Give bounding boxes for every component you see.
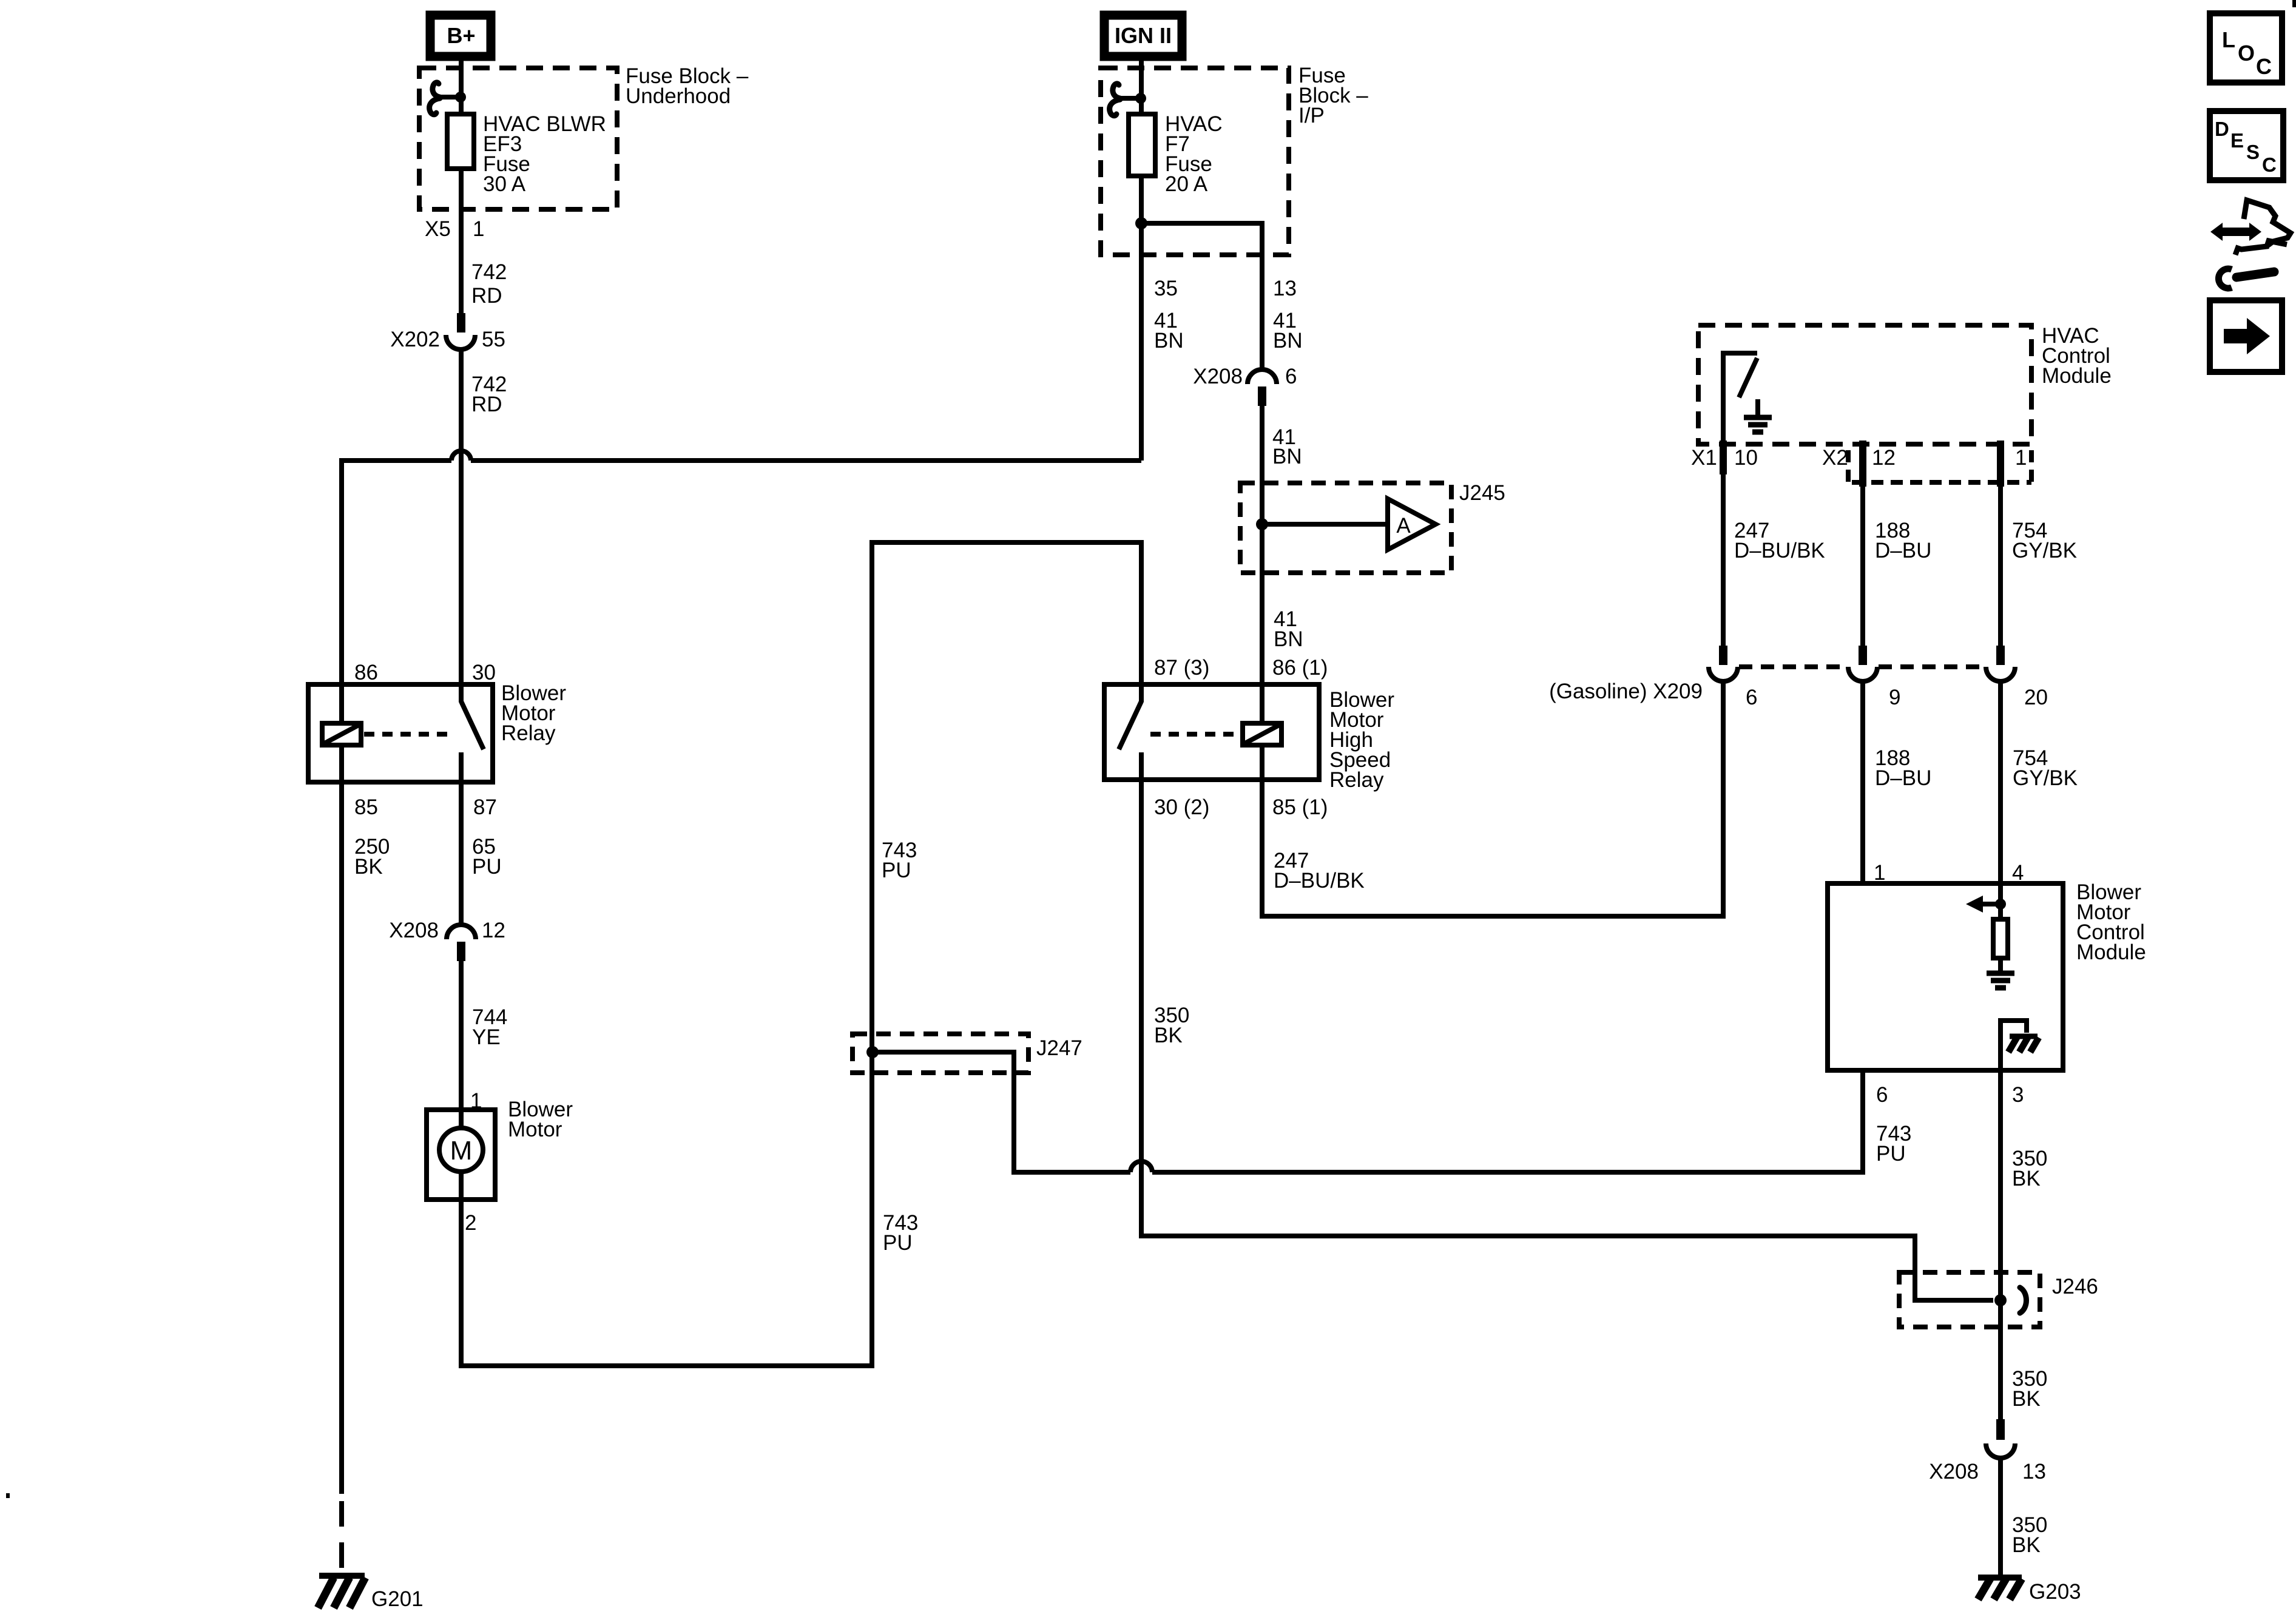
wire label 41 BN below X208-6 (1272, 425, 1302, 468)
splice J245 dashed box (1240, 481, 1505, 573)
svg-text:A: A (1396, 514, 1411, 538)
svg-text:I/P: I/P (1298, 104, 1325, 127)
wire label 350 BK at pin 3 (2012, 1147, 2047, 1190)
relay pin labels 86 30 85 87 (354, 661, 497, 819)
fuse block terminal splice at IGN II feed (1110, 84, 1146, 116)
wire J245 to off-page arrow A (1262, 522, 1388, 527)
wire IGN II to fuse F7 (1139, 58, 1144, 114)
wire label 250 BK (354, 835, 390, 879)
svg-text:12: 12 (1872, 446, 1896, 470)
wire label 350 BK (1154, 1004, 1189, 1047)
label Fuse Block - Underhood (626, 64, 749, 108)
svg-text:J246: J246 (2052, 1275, 2098, 1298)
svg-text:D: D (2215, 118, 2229, 140)
arrow control symbol inside module (1966, 896, 2001, 913)
pin labels 1 and 4 (1874, 861, 2024, 885)
node J247 splice (866, 1046, 879, 1058)
svg-text:BN: BN (1272, 445, 1302, 468)
wire label 41 BN (1274, 607, 1303, 651)
label Fuse Block - I/P (1298, 64, 1368, 127)
wire HVAC module pin 12 to X209-9 (1860, 482, 1865, 646)
stray page mark top right (2292, 0, 2296, 7)
svg-text:X208: X208 (1929, 1460, 1979, 1484)
label (Gasoline) X209 and pin numbers (1549, 680, 2048, 709)
motor blower motor (427, 1110, 495, 1200)
svg-text:D–BU: D–BU (1875, 539, 1931, 562)
wire label 742 RD (471, 373, 507, 416)
wire label 744 YE (472, 1005, 507, 1049)
svg-text:87 (3): 87 (3) (1154, 656, 1209, 680)
wire X202 to blower motor relay pin 30 (459, 349, 464, 684)
svg-text:20: 20 (2024, 686, 2048, 709)
svg-text:BK: BK (354, 855, 383, 879)
switch to ground inside HVAC control module (1723, 353, 1772, 441)
svg-text:1: 1 (2015, 446, 2027, 470)
svg-text:D–BU: D–BU (1875, 766, 1931, 790)
wire high speed relay pin 85(1) 247 D-BU/BK to X209-6 (1262, 681, 1723, 916)
ground bars inside module (1987, 973, 2014, 988)
node X5 pin 1 labels (425, 217, 484, 241)
pin labels 6 and 3 (1876, 1083, 2024, 1107)
icon forward arrow box (2210, 300, 2282, 372)
module blower motor control module (1828, 880, 2146, 1070)
svg-text:Relay: Relay (501, 721, 556, 745)
svg-text:PU: PU (883, 1231, 913, 1255)
svg-text:Module: Module (2076, 940, 2146, 964)
wire label 188 D-BU (1875, 519, 1931, 562)
svg-text:86 (1): 86 (1) (1272, 656, 1328, 680)
wire label 65 PU (472, 835, 502, 879)
node fuse block pins 35 and 13 (1154, 277, 1297, 300)
connector X202 pin 55 (390, 313, 505, 351)
svg-text:G201: G201 (371, 1587, 424, 1611)
node off-page reference arrow A (1388, 499, 1436, 550)
svg-text:30 A: 30 A (483, 172, 526, 196)
svg-text:Underhood: Underhood (626, 84, 731, 108)
wire high speed relay pin 30(2) 350 BK down and right to J246 (1141, 780, 1993, 1300)
wire fuse EF3 to connector X202 (459, 169, 464, 313)
svg-text:3: 3 (2012, 1083, 2024, 1107)
svg-text:RD: RD (471, 393, 502, 416)
wire relay pin 87 to connector X208-12 (459, 782, 464, 925)
fuse block terminal splice at B+ feed (430, 83, 466, 115)
svg-text:X208: X208 (389, 919, 439, 942)
wire HVAC module pin 10 to X209-6 (1721, 474, 1726, 646)
svg-text:742: 742 (471, 260, 507, 284)
svg-text:GY/BK: GY/BK (2013, 766, 2078, 790)
svg-text:BN: BN (1154, 329, 1184, 353)
node IGN II power feed box (1104, 15, 1182, 56)
wire label 754 GY/BK (2012, 519, 2077, 562)
svg-text:X202: X202 (390, 328, 440, 351)
pin labels X1 10 X2 12 1 (1691, 446, 2027, 470)
svg-text:55: 55 (482, 328, 505, 351)
splice clip symbol at J246 (2020, 1288, 2027, 1313)
icon double arrow with hand and wrench (2210, 200, 2291, 288)
node B+ power feed box (430, 15, 491, 56)
wire label 350 BK above G203 (2012, 1513, 2047, 1557)
svg-text:S: S (2246, 141, 2260, 163)
icon DESC box (2210, 111, 2283, 180)
svg-text:4: 4 (2012, 861, 2024, 885)
wire label 188 D-BU lower (1875, 746, 1931, 790)
svg-text:G203: G203 (2029, 1580, 2081, 1604)
stray page mark bottom left (6, 1493, 10, 1498)
svg-text:86: 86 (354, 661, 378, 684)
fuse EF3 HVAC BLWR 30 A (447, 112, 606, 196)
wire X208-6 to high speed relay pin 86 (1260, 406, 1264, 684)
node internal junction at pin 4 (1995, 899, 2006, 910)
svg-text:J245: J245 (1459, 481, 1505, 505)
wire HVAC module pin 1 to X209-20 (1998, 482, 2003, 646)
connector X209 pin 6 (1709, 646, 1738, 681)
wire fuse F7 down inside fuse block (1139, 176, 1144, 461)
wire B+ to fuse EF3 (459, 58, 464, 114)
ground G201 (318, 1576, 424, 1611)
svg-text:30 (2): 30 (2) (1154, 795, 1209, 819)
wire label 247 D-BU/BK (1734, 519, 1825, 562)
svg-text:B+: B+ (447, 23, 475, 48)
svg-text:30: 30 (472, 661, 496, 684)
wire label 350 BK below J246 (2012, 1367, 2047, 1411)
svg-text:X208: X208 (1193, 365, 1243, 388)
svg-text:PU: PU (472, 855, 502, 879)
svg-text:85 (1): 85 (1) (1272, 795, 1328, 819)
svg-text:BK: BK (2012, 1533, 2041, 1557)
splice J246 dashed box (1899, 1272, 2098, 1327)
svg-text:20 A: 20 A (1165, 172, 1208, 196)
wire X208-12 to blower motor pin 1 (459, 961, 464, 1110)
svg-text:13: 13 (2022, 1460, 2046, 1484)
svg-text:6: 6 (1285, 365, 1297, 388)
svg-text:85: 85 (354, 795, 378, 819)
wire module pin 3 down to J246 (1998, 1070, 2003, 1300)
svg-text:10: 10 (1734, 446, 1758, 470)
svg-text:PU: PU (1876, 1142, 1906, 1166)
svg-text:L: L (2222, 27, 2235, 52)
svg-text:E: E (2230, 129, 2244, 152)
svg-text:D–BU/BK: D–BU/BK (1734, 539, 1825, 562)
relay blower motor relay (308, 684, 493, 782)
pin stubs X1-10 X2-12 X2-1 (1720, 441, 2004, 487)
svg-text:12: 12 (482, 919, 505, 942)
wire label 743 PU at module pin 6 (1876, 1122, 1911, 1166)
connector X209 pin 20 (1986, 646, 2015, 681)
wire X209-20 to blower motor control module pin 4 (1998, 681, 2003, 904)
wire blower motor pin 2 to J247 (461, 1052, 872, 1366)
resistor inside blower motor control module (1993, 904, 2008, 971)
wire label 742 RD (471, 260, 507, 308)
wire X208-13 to ground G203 (1998, 1458, 2003, 1576)
fuse block I/P dashed box (1101, 68, 1289, 255)
wire label 743 PU upper (882, 839, 917, 882)
svg-text:1: 1 (473, 217, 484, 241)
svg-text:M: M (450, 1136, 473, 1166)
svg-text:BK: BK (2012, 1167, 2041, 1190)
fuse block underhood dashed box (419, 68, 617, 209)
wire 41 BN pin 35 to blower motor relay coil pin 86 (342, 451, 1141, 684)
svg-text:BN: BN (1274, 627, 1303, 651)
relay pin labels 87(3) 86(1) 30(2) 85(1) (1154, 656, 1328, 819)
chassis ground at pin 3 inside module (2001, 1021, 2039, 1070)
svg-text:D–BU/BK: D–BU/BK (1274, 869, 1365, 893)
node J245 splice (1256, 518, 1268, 530)
svg-text:GY/BK: GY/BK (2012, 539, 2077, 562)
wire label 754 GY/BK lower (2013, 746, 2078, 790)
wire branch to fuse block pin 13 (1141, 223, 1262, 370)
svg-text:Module: Module (2042, 364, 2112, 388)
wire J246 to connector X208-13 (1998, 1300, 2003, 1419)
svg-text:YE: YE (472, 1025, 501, 1049)
svg-text:6: 6 (1876, 1083, 1888, 1107)
fuse F7 HVAC 20 A (1129, 112, 1223, 196)
svg-text:6: 6 (1746, 686, 1757, 709)
svg-text:C: C (2262, 154, 2277, 176)
svg-text:X1: X1 (1691, 446, 1717, 470)
svg-text:X5: X5 (425, 217, 451, 241)
wire label 41 BN left (1154, 309, 1184, 353)
svg-text:BK: BK (1154, 1024, 1183, 1047)
svg-text:BK: BK (2012, 1387, 2041, 1411)
svg-text:RD: RD (471, 284, 502, 308)
svg-text:X2: X2 (1822, 446, 1848, 470)
connector X208 pin 6 (1193, 365, 1297, 406)
wire label 247 D-BU/BK (1274, 849, 1365, 893)
junction inside fuse block I/P (1135, 217, 1147, 229)
svg-text:J247: J247 (1036, 1036, 1082, 1060)
svg-text:BN: BN (1273, 329, 1303, 353)
svg-text:O: O (2238, 41, 2255, 66)
connector X208 pin 13 (1929, 1419, 2046, 1484)
svg-text:C: C (2256, 54, 2272, 79)
wire J247 up to high speed relay pin 87(3) (872, 542, 1141, 1052)
svg-text:87: 87 (473, 795, 497, 819)
icon LOC box (2210, 13, 2282, 83)
wire J247 to blower motor control module pin 6 with hop over 350 BK (873, 1052, 1863, 1172)
svg-text:PU: PU (882, 859, 911, 882)
node J246 splice (1994, 1294, 2007, 1306)
svg-text:9: 9 (1889, 686, 1900, 709)
label Blower Motor (508, 1098, 573, 1141)
svg-text:IGN II: IGN II (1115, 23, 1172, 48)
svg-text:Relay: Relay (1329, 768, 1384, 792)
wire X209-9 to blower motor control module pin 1 (1860, 681, 1865, 883)
label Blower Motor High Speed Relay (1329, 688, 1394, 792)
module HVAC control module dashed box (1698, 324, 2112, 444)
wire label 743 PU lower (883, 1211, 918, 1255)
svg-text:35: 35 (1154, 277, 1178, 300)
dashed link between X209 connectors (1739, 664, 1985, 669)
svg-text:Motor: Motor (508, 1118, 562, 1141)
connector X209 pin 9 (1848, 646, 1877, 681)
splice J247 dashed box (853, 1034, 1082, 1073)
svg-text:1: 1 (1874, 861, 1885, 885)
svg-text:2: 2 (465, 1211, 476, 1235)
label Blower Motor Relay (501, 681, 566, 745)
connector X2 bracket of HVAC control module (1848, 450, 2031, 482)
wire label 41 BN right (1273, 309, 1303, 353)
svg-text:13: 13 (1273, 277, 1297, 300)
connector X208 pin 12 (389, 919, 505, 961)
relay blower motor high speed relay (1104, 684, 1319, 780)
svg-text:(Gasoline) X209: (Gasoline) X209 (1549, 680, 1703, 703)
wire relay pin 85 to ground G201 (339, 782, 344, 1573)
ground G203 (1978, 1578, 2081, 1604)
